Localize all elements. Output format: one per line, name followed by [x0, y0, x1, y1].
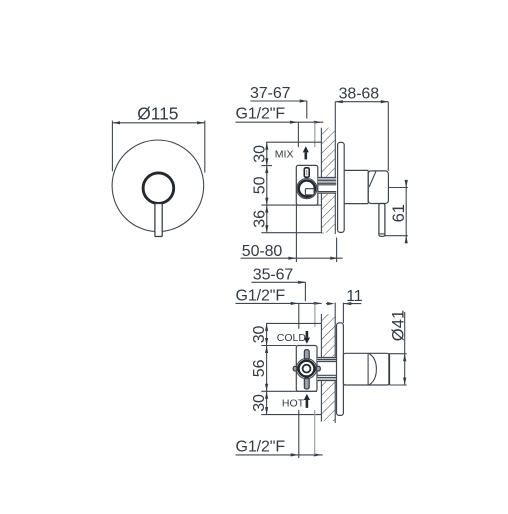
svg-text:Ø41: Ø41 [388, 310, 407, 341]
svg-text:HOT: HOT [282, 398, 305, 410]
svg-text:30: 30 [251, 145, 268, 163]
svg-text:30: 30 [251, 326, 268, 344]
svg-text:11: 11 [346, 288, 363, 305]
svg-text:G1/2"F: G1/2"F [236, 106, 286, 123]
svg-text:50: 50 [251, 176, 268, 194]
svg-text:30: 30 [251, 394, 268, 412]
svg-text:Ø115: Ø115 [137, 103, 178, 123]
svg-text:G1/2"F: G1/2"F [236, 438, 286, 455]
svg-text:37-67: 37-67 [250, 85, 291, 102]
svg-text:50-80: 50-80 [242, 243, 283, 260]
svg-text:61: 61 [389, 204, 408, 222]
svg-text:38-68: 38-68 [339, 86, 380, 103]
svg-text:36: 36 [251, 210, 268, 228]
svg-text:COLD: COLD [277, 332, 307, 344]
svg-text:35-67: 35-67 [253, 267, 294, 284]
svg-text:56: 56 [251, 359, 268, 377]
svg-text:MIX: MIX [275, 148, 294, 160]
svg-text:G1/2"F: G1/2"F [236, 288, 286, 305]
